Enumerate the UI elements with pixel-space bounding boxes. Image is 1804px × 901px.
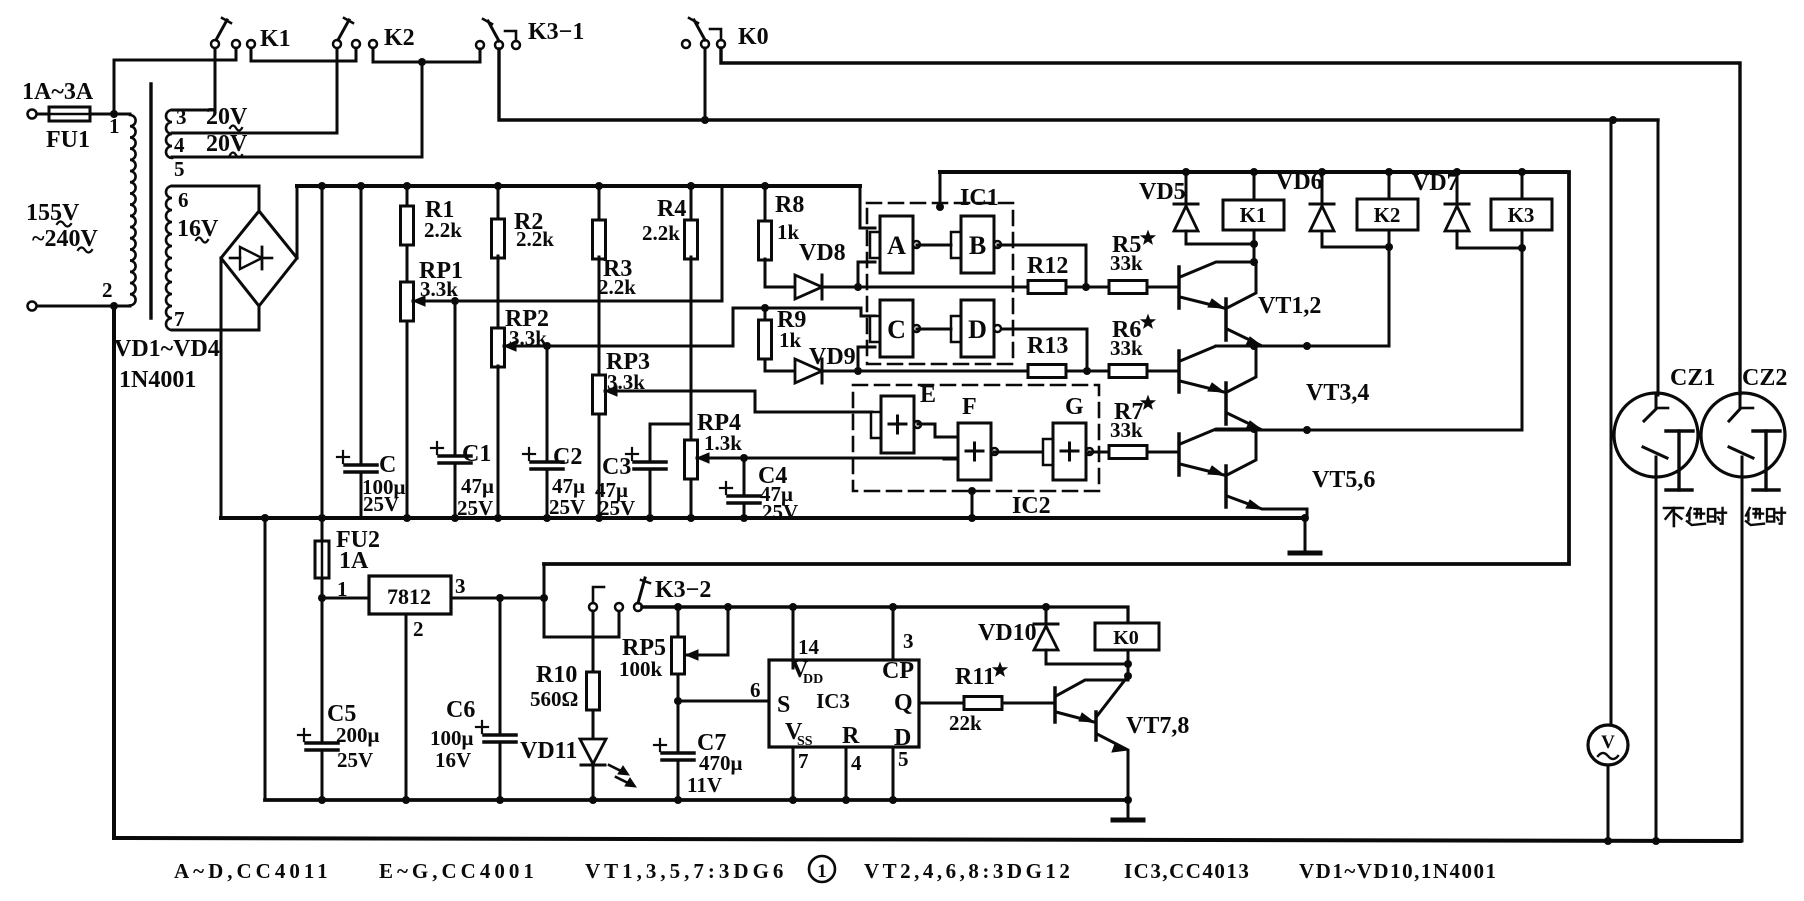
- junction dot VT7,8 collector node: [1124, 672, 1132, 680]
- svg-text:7: 7: [798, 749, 809, 773]
- wire: winding pin3 to K1 contact: [172, 47, 215, 110]
- junction dot VD6/K2: [1385, 243, 1393, 251]
- net: bottom section rail y800: [265, 798, 1128, 802]
- svg-text:VD8: VD8: [799, 240, 846, 266]
- transistor VT6 base bar: [1224, 466, 1228, 507]
- wire: C2 column: [546, 346, 549, 462]
- junction dot VD10/K0: [1124, 660, 1132, 668]
- wire: K1 right contact stub: [235, 48, 238, 60]
- wire: K2 aux to K3-1 via pin5 junction: [373, 48, 480, 62]
- svg-text:R: R: [842, 723, 860, 749]
- switch K3-2: [589, 603, 597, 611]
- svg-text:R11: R11: [955, 664, 995, 690]
- junction dot VT6 emitter at bus end: [1301, 514, 1309, 522]
- wire: E output to F input: [918, 424, 958, 437]
- junction dot 7812 input node1: [318, 594, 326, 602]
- wire: VT5,6 emitter down to ground node: [1306, 509, 1309, 518]
- svg-text:VT5,6: VT5,6: [1312, 467, 1375, 493]
- svg-text:S: S: [777, 692, 790, 718]
- ground symbol below VT7,8: [1113, 818, 1143, 823]
- svg-text:1: 1: [817, 861, 827, 882]
- wire: F output to G input: [994, 451, 1043, 454]
- junction dot IC2 VSS on box: [968, 487, 976, 495]
- junction dot emitter VT4 on line: [1303, 426, 1311, 434]
- svg-text:11V: 11V: [687, 773, 722, 797]
- wire: bridge - output down to lower bus: [220, 258, 223, 517]
- caption 延时 under CZ2 (drawn strokes): [1754, 508, 1760, 510]
- transistor VT3 base bar: [1177, 351, 1181, 392]
- capacitor C: [345, 463, 377, 467]
- wire: K3-2 left contact down to R10: [592, 611, 595, 640]
- wire: rail end to ground: [1127, 800, 1130, 818]
- node 2 junction: [110, 302, 118, 310]
- wire: K1 coil to VT1 collector: [1253, 230, 1256, 262]
- bridge rectifier VD1-VD4 input top wire: [172, 186, 259, 211]
- wire: B output to R12/R5 node: [998, 245, 1086, 287]
- transistor VT6 collector: [1227, 429, 1256, 475]
- svg-text:K3−2: K3−2: [655, 577, 711, 603]
- wire: K3 coil down to VT5 collector line: [1521, 230, 1524, 430]
- svg-text:VT1,2: VT1,2: [1258, 293, 1321, 319]
- svg-text:3: 3: [455, 574, 466, 598]
- wire: R11 to VT7 base: [1002, 702, 1055, 705]
- wire: IC3 pin4 R to rail: [845, 747, 848, 800]
- svg-text:A~D,CC4011: A~D,CC4011: [174, 859, 332, 883]
- svg-text:CZ2: CZ2: [1742, 365, 1787, 391]
- transistor VT3 emitter with arrow: [1180, 381, 1224, 392]
- svg-text:~240V: ~240V: [32, 226, 98, 252]
- resistor R1: [406, 186, 409, 206]
- wire: 7812 pin3 +12V line: [451, 597, 544, 600]
- net: K3 coil / VT5 collector line y430: [1216, 429, 1522, 432]
- potentiometer RP2: [492, 328, 505, 367]
- junction dot C7 rail: [674, 796, 682, 804]
- svg-text:K2: K2: [384, 25, 415, 51]
- wire: lower bus drop x265: [264, 518, 267, 800]
- wire: node 2 down left rail: [112, 306, 116, 838]
- socket CZ2 earth pin T: [1753, 429, 1780, 432]
- svg-text:2: 2: [102, 278, 113, 302]
- potentiometer RP4: [685, 440, 698, 479]
- socket CZ1 earth pin T: [1666, 429, 1693, 432]
- junction dot VD8 node: [854, 283, 862, 291]
- junction dot +12V corner: [540, 594, 548, 602]
- hook above K3-1 aux contact: [505, 31, 516, 41]
- svg-text:CP: CP: [882, 658, 914, 684]
- wire: C6 column: [499, 598, 502, 735]
- net: relay supply rail y172: [940, 170, 1566, 174]
- svg-text:155V: 155V: [26, 200, 80, 226]
- transistor VT1 emitter with arrow: [1180, 297, 1224, 308]
- svg-text:F: F: [962, 394, 977, 420]
- svg-text:33k: 33k: [1110, 251, 1143, 275]
- wire: C5 bottom: [321, 750, 324, 800]
- wire: K0 aux to right edge down to CZ2: [721, 48, 1740, 394]
- wire: K0 pole down to bus y120: [704, 48, 707, 120]
- svg-text:K3: K3: [1508, 203, 1535, 227]
- resistor R13: [1028, 365, 1066, 378]
- wire: IC3 pin14 VDD from +12V line: [792, 607, 795, 668]
- transistor VT2 collector: [1227, 262, 1256, 308]
- junction dot pin5 rail: [889, 796, 897, 804]
- wire: stub to gate C lower input: [858, 347, 875, 371]
- label R6 star: [1141, 315, 1154, 328]
- svg-text:E: E: [920, 382, 936, 408]
- diode VD10 (flyback): [1045, 607, 1048, 624]
- relay coil K1: [1253, 172, 1256, 200]
- junction dot VT5,6 collector node: [1250, 425, 1258, 433]
- switch K3-1: [476, 41, 484, 49]
- svg-text:1k: 1k: [777, 220, 800, 244]
- wire: IC1 VDD stub from relay rail: [939, 172, 942, 207]
- switch K0: [682, 40, 690, 48]
- gate D (IC1): [951, 316, 961, 342]
- svg-text:7812: 7812: [387, 584, 431, 609]
- bridge internal diode symbol: [240, 247, 262, 269]
- wire: IC2 VSS stub to lower bus: [971, 491, 974, 518]
- wire: relay rail right corner down to +12V line: [544, 172, 1569, 564]
- caption 不延时 under CZ1 (drawn strokes): [1664, 507, 1683, 510]
- diode VD6 (flyback): [1321, 172, 1324, 204]
- svg-text:IC3: IC3: [816, 689, 850, 713]
- transistor VT5 base bar: [1177, 434, 1181, 475]
- svg-text:IC2: IC2: [1012, 493, 1051, 519]
- capacitor C4: [728, 494, 760, 498]
- wire: stub to gate A lower input: [858, 262, 875, 287]
- resistor R11: [964, 697, 1002, 710]
- svg-text:4: 4: [174, 133, 185, 157]
- wire: cap C column x361: [360, 186, 363, 465]
- gate A (IC1): [870, 232, 880, 258]
- svg-text:560Ω: 560Ω: [530, 687, 578, 711]
- wire: +12V line corner down to K0 coil: [1046, 607, 1128, 623]
- junction dot 7812 pin2 rail: [402, 796, 410, 804]
- wire: C3 bottom: [649, 469, 652, 518]
- svg-text:25V: 25V: [337, 748, 373, 772]
- switch K2: [333, 40, 341, 48]
- wire: RP4 wiper line to F gate input: [697, 457, 958, 460]
- label R5 star: [1141, 231, 1154, 244]
- capacitor C5: [306, 741, 338, 745]
- wire: input to fuse FU1: [37, 113, 49, 116]
- junction dot on bus y120 at x1613: [1609, 116, 1617, 124]
- transistor VT2 emitter with arrow: [1227, 329, 1307, 346]
- svg-text:25V: 25V: [363, 492, 399, 516]
- resistor R3: [598, 186, 601, 220]
- svg-text:1: 1: [109, 114, 120, 138]
- svg-text:100μ: 100μ: [430, 726, 474, 750]
- svg-text:2.2k: 2.2k: [424, 218, 462, 242]
- wire: C2 bottom: [546, 469, 549, 518]
- junction dot VD7/K3: [1518, 244, 1526, 252]
- relay coil K3: [1521, 172, 1524, 199]
- junction dot S node: [674, 697, 682, 705]
- switch K1: [211, 40, 219, 48]
- svg-text:VD5: VD5: [1139, 179, 1186, 205]
- junction dot IC1 VDD: [936, 203, 944, 211]
- svg-text:K3−1: K3−1: [528, 19, 584, 45]
- wire: IC3 Q output to R11: [919, 702, 964, 705]
- potentiometer RP3: [593, 375, 606, 414]
- svg-text:VD1~VD4: VD1~VD4: [114, 336, 220, 362]
- socket CZ1 circle: [1614, 393, 1698, 477]
- junction dot R13/R6/D node: [1083, 367, 1091, 375]
- wire: VD6 to K2 coil bottom: [1322, 246, 1389, 249]
- transformer core: [149, 84, 152, 318]
- transistor VT1 base bar: [1177, 267, 1181, 308]
- potentiometer RP5: [677, 607, 680, 637]
- hook above K3-2 left contact: [593, 587, 604, 603]
- wire: FU2 to 7812 input node: [321, 578, 324, 598]
- gate F (IC2): [958, 423, 991, 480]
- figure number 1 in circle: [809, 856, 835, 882]
- svg-text:25V: 25V: [762, 500, 798, 524]
- RP4 wiper arrowhead: [697, 453, 709, 463]
- ground symbol below VT5,6: [1290, 551, 1320, 556]
- svg-text:R8: R8: [775, 192, 804, 218]
- svg-text:Q: Q: [894, 690, 913, 716]
- wire: F second input from RP4 line: [944, 458, 958, 461]
- transistor VT8 base bar: [1094, 712, 1098, 740]
- capacitor C6: [484, 733, 516, 737]
- label R7 star: [1141, 396, 1154, 409]
- wire: A output to B input: [917, 244, 951, 247]
- fuse FU2: [315, 541, 329, 578]
- svg-text:FU1: FU1: [46, 127, 90, 153]
- junction dot drop x265 top: [261, 514, 269, 522]
- svg-text:20V: 20V: [206, 104, 248, 130]
- junction dot VD11 rail: [589, 796, 597, 804]
- RP2 wiper arrowhead: [504, 341, 516, 351]
- svg-text:VD11: VD11: [520, 738, 577, 764]
- junction dot C6 rail: [496, 796, 504, 804]
- wire: C1 bottom: [454, 463, 457, 518]
- transistor VT6 emitter with arrow: [1227, 496, 1307, 509]
- IC2 dashed outline: [853, 385, 1099, 491]
- wire: C5 column: [321, 598, 324, 743]
- transistor VT4 emitter with arrow: [1227, 413, 1307, 430]
- svg-text:1A: 1A: [339, 548, 369, 574]
- wire: K0 coil bottom to VT7,8 collector: [1127, 650, 1130, 680]
- svg-text:100k: 100k: [619, 657, 663, 681]
- svg-text:K1: K1: [260, 26, 291, 52]
- wire: C4 bottom: [743, 503, 746, 518]
- svg-text:2.2k: 2.2k: [642, 221, 680, 245]
- svg-text:IC1: IC1: [960, 185, 999, 211]
- resistor R4: [690, 186, 693, 220]
- resistor R7: [1109, 446, 1147, 459]
- wire: K3-1 right contact down to bus y120: [499, 49, 1658, 120]
- svg-text:C2: C2: [553, 444, 582, 470]
- svg-text:K0: K0: [1113, 627, 1139, 649]
- net: outer bottom rail y841: [114, 838, 1740, 841]
- wire: bus end to ground: [1304, 518, 1307, 551]
- wire: K2 right contact stub: [355, 48, 358, 61]
- node: mains input terminal N: [28, 302, 37, 311]
- svg-text:1k: 1k: [779, 328, 802, 352]
- svg-text:K1: K1: [1240, 203, 1267, 227]
- wire: node1 up to K1 feed: [114, 60, 236, 114]
- wire: fuse to node 1: [90, 113, 130, 116]
- svg-text:V: V: [1601, 732, 1615, 753]
- resistor R8: [764, 186, 767, 221]
- svg-text:VD9: VD9: [809, 344, 856, 370]
- svg-text:CZ1: CZ1: [1670, 365, 1715, 391]
- svg-text:VT2,4,6,8:3DG12: VT2,4,6,8:3DG12: [864, 859, 1073, 883]
- RP3 wiper arrowhead: [605, 386, 617, 396]
- junction dots on +12V switched line: [674, 603, 682, 611]
- regulator 7812: [369, 576, 451, 614]
- voltmeter V~: [1588, 725, 1628, 765]
- transistor VT3 collector: [1180, 346, 1254, 361]
- transistor VT8 collector: [1097, 676, 1128, 716]
- bridge rectifier VD1-VD4 diamond: [221, 211, 297, 306]
- transistor VT8 emitter with arrow: [1097, 734, 1128, 800]
- gate G (IC2): [1043, 439, 1053, 465]
- transistor VT2 base bar: [1224, 299, 1228, 340]
- wire: R13 to R6: [1066, 370, 1109, 373]
- svg-text:2.2k: 2.2k: [516, 227, 554, 251]
- svg-text:C6: C6: [446, 697, 475, 723]
- wire: C3 stub to RP4 top node: [650, 423, 691, 426]
- svg-text:R13: R13: [1027, 333, 1068, 359]
- svg-text:R12: R12: [1027, 253, 1068, 279]
- RP1 wiper arrowhead: [413, 296, 425, 306]
- svg-text:2.2k: 2.2k: [598, 275, 636, 299]
- wire: G output to R7: [1089, 451, 1109, 454]
- wire: C3 column: [649, 424, 652, 462]
- svg-text:VD7: VD7: [1412, 170, 1459, 196]
- junction dot R12/R5/B node: [1082, 283, 1090, 291]
- wire: column x322 bus to FU2: [321, 186, 324, 541]
- fuse FU1: [49, 107, 90, 121]
- junction dot VD9 node: [854, 367, 862, 375]
- svg-text:25V: 25V: [549, 495, 585, 519]
- bridge rectifier VD1-VD4 input bottom wire: [172, 306, 259, 330]
- wire: voltmeter branch from bus y120: [1610, 120, 1613, 725]
- wire: cap C bottom: [360, 472, 363, 518]
- wire: C6 bottom: [499, 742, 502, 800]
- svg-text:C1: C1: [462, 441, 491, 467]
- LED VD11 light arrows: [609, 765, 623, 772]
- wire: RP3 wiper line to E gate input: [605, 391, 872, 412]
- svg-text:22k: 22k: [949, 711, 982, 735]
- svg-text:6: 6: [750, 678, 761, 702]
- svg-text:VD10: VD10: [978, 620, 1037, 646]
- svg-text:47μ: 47μ: [461, 474, 494, 498]
- wire: R6 to VT3 base: [1147, 370, 1179, 373]
- wire: K1 aux to K2 bus y60: [251, 48, 356, 61]
- junction dot C6 top: [496, 594, 504, 602]
- capacitor C2: [531, 460, 563, 464]
- wire: C output to D input: [917, 328, 951, 331]
- junction dot C5 rail: [318, 796, 326, 804]
- IC1 dashed outline: [867, 203, 1013, 364]
- junction dot C4 top: [740, 454, 748, 462]
- wire: winding pin4 to K2 contact: [172, 47, 337, 133]
- node 1 junction: [110, 110, 118, 118]
- RP5 wiper arrowhead: [686, 650, 698, 660]
- junction dots on lower bus: [403, 514, 411, 522]
- svg-text:3.3k: 3.3k: [420, 277, 458, 301]
- capacitor C7: [662, 751, 694, 755]
- label R11 star: [993, 663, 1006, 676]
- wire: VD9 cathode to R13 line: [822, 370, 1028, 373]
- svg-text:K0: K0: [738, 24, 769, 50]
- wire: K2 coil down to VT3 collector line: [1388, 230, 1391, 346]
- net: +16V main bus y186: [297, 184, 860, 188]
- svg-text:G: G: [1065, 394, 1084, 420]
- wire: C7 bottom to rail: [677, 760, 680, 800]
- svg-text:SS: SS: [797, 734, 813, 749]
- svg-text:VT1,3,5,7:3DG6: VT1,3,5,7:3DG6: [585, 859, 787, 883]
- wire: RP5 bottom to S node: [677, 674, 680, 701]
- svg-text:7: 7: [174, 307, 185, 331]
- wire: voltmeter bottom to rail: [1607, 765, 1610, 841]
- wire: R9 top line from RP2 node: [733, 307, 861, 310]
- resistor R9: [764, 308, 767, 320]
- node: mains input terminal L: [28, 110, 37, 119]
- junction dot R9 top: [761, 304, 769, 312]
- svg-text:B: B: [969, 231, 986, 260]
- wire: node to 7812 pin1: [322, 597, 369, 600]
- wire: terminal N to node 2: [37, 305, 130, 308]
- wire: C1 column: [454, 301, 457, 456]
- wire: CZ1 bottom to rail: [1655, 457, 1658, 841]
- transistor VT7 collector: [1056, 680, 1128, 696]
- svg-text:3: 3: [903, 629, 914, 653]
- wire: RP1 wiper line to bus via x722: [413, 186, 722, 301]
- junction dot K0 pole on bus y120: [701, 116, 709, 124]
- wire: IC3 pin7 VSS to rail: [792, 747, 795, 800]
- wire: winding pin5 to K2 aux bus: [172, 62, 422, 157]
- wire: R12 to R5: [1066, 286, 1109, 289]
- wire: VD11 to bottom rail: [592, 765, 595, 800]
- svg-text:R4: R4: [657, 196, 686, 222]
- relay coil K2: [1388, 172, 1391, 199]
- svg-text:VT3,4: VT3,4: [1306, 380, 1369, 406]
- net: 0V lower bus y518: [221, 516, 1305, 520]
- wire: VD8 cathode to R12 line: [822, 286, 1028, 289]
- relay coil K0: [1095, 623, 1159, 650]
- wire: VD7 to K3 coil bottom: [1457, 247, 1522, 250]
- junction dots on outer rail: [1604, 837, 1612, 845]
- wire: R5 to VT1 base: [1147, 286, 1179, 289]
- svg-text:33k: 33k: [1110, 418, 1143, 442]
- wire: K3-1 left contact stub: [479, 49, 482, 62]
- svg-text:IC3,CC4013: IC3,CC4013: [1124, 859, 1250, 883]
- capacitor C3: [634, 460, 666, 464]
- svg-text:VD1~VD10,1N4001: VD1~VD10,1N4001: [1299, 859, 1498, 883]
- capacitor C1: [439, 454, 471, 458]
- svg-text:200μ: 200μ: [336, 723, 380, 747]
- transistor VT4 base bar: [1224, 383, 1228, 424]
- transistor VT4 collector: [1227, 346, 1256, 392]
- diode VD9: [795, 359, 822, 383]
- junction dot VT1,2 collector node: [1250, 258, 1258, 266]
- junction dot x322 on lower bus: [318, 514, 326, 522]
- transformer secondary winding 6-7: [166, 186, 172, 330]
- svg-text:14: 14: [798, 635, 820, 659]
- wire: R8 bottom to VD8: [765, 286, 795, 289]
- junction dot VD5/K1: [1250, 240, 1258, 248]
- resistor R6: [1109, 365, 1147, 378]
- resistor R2: [497, 186, 500, 219]
- LED VD11: [580, 739, 606, 764]
- diode VD7 (flyback): [1456, 172, 1459, 204]
- junction dot C2 top: [543, 342, 551, 350]
- wire: VD10 bottom to K0 coil node: [1046, 663, 1128, 666]
